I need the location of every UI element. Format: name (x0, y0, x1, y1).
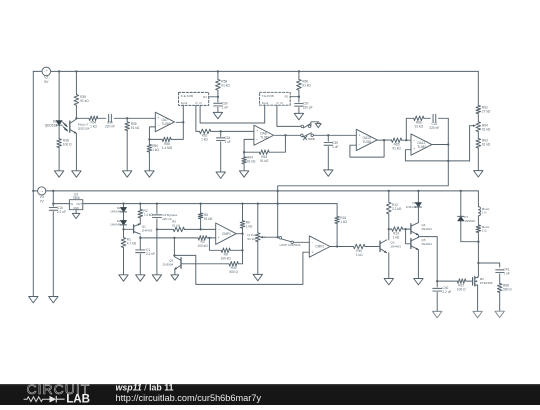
voltage source V2 (33, 67, 50, 84)
svg-text:SW8: SW8 (308, 137, 315, 141)
svg-text:RJ: RJ (203, 95, 207, 99)
svg-text:1 kΩ: 1 kΩ (90, 125, 97, 129)
ground C34 (216, 172, 225, 178)
svg-text:1N4148: 1N4148 (110, 223, 121, 227)
svg-text:100 kΩ: 100 kΩ (197, 244, 208, 248)
svg-text:2N4401: 2N4401 (390, 245, 401, 249)
ground U2 (72, 213, 80, 218)
node D2 R1 base (122, 228, 124, 230)
node V3 left border (32, 190, 34, 192)
transistor Q2 2N3904 (163, 257, 181, 270)
wire box1 O to R62 (196, 105, 200, 131)
node C34 tap (220, 130, 222, 132)
wire box1 RJ pin (209, 96, 218, 98)
svg-text:−: − (312, 241, 314, 245)
ground Q3 (384, 279, 393, 285)
ground divider chain (474, 171, 483, 177)
wire U2 output rail (83, 203, 337, 205)
wire OA7 output (176, 121, 183, 123)
svg-text:1 kΩ: 1 kΩ (152, 148, 159, 152)
resistor Motor R (476, 225, 489, 233)
svg-text:91 kΩ: 91 kΩ (80, 99, 89, 103)
resistor R2 (138, 204, 153, 218)
svg-text:91 kΩ: 91 kΩ (204, 217, 213, 221)
wire node to R5 (157, 228, 173, 230)
svg-text:2.2 nF: 2.2 nF (146, 252, 155, 256)
wire M2 source ground (477, 286, 479, 312)
wiper R64b (470, 125, 476, 161)
svg-text:1 Ω: 1 Ω (482, 229, 488, 233)
svg-text:91 kΩ: 91 kΩ (482, 127, 491, 131)
ground C10 (49, 297, 58, 303)
svg-text:1N4148: 1N4148 (110, 210, 121, 214)
node C3 R5 (156, 228, 158, 230)
svg-text:2.2 uF: 2.2 uF (57, 210, 66, 214)
svg-text:91 kΩ: 91 kΩ (392, 146, 401, 150)
wire R50 to ground (148, 152, 150, 171)
wire C39 to ground (327, 147, 329, 170)
ground C30 (213, 112, 222, 118)
svg-text:+: + (158, 116, 160, 120)
diode D9 (406, 191, 422, 210)
wire Q4 collector to D9 (417, 210, 419, 223)
wire C10 to ground (52, 212, 54, 297)
svg-text:1 kΩ: 1 kΩ (246, 224, 253, 228)
node Q4 base (404, 228, 406, 230)
capacitor C34 (217, 131, 231, 144)
svg-text:1 uF: 1 uF (225, 140, 231, 144)
wire Q3 emitter ground (388, 253, 390, 279)
svg-text:91 kΩ: 91 kΩ (415, 125, 424, 129)
wire Q5 base drop (406, 229, 411, 244)
resistor R12 (387, 191, 402, 229)
wire Q5 emitter ground (417, 250, 419, 279)
capacitor C41 (496, 268, 510, 276)
node wiper bus (277, 236, 279, 238)
wire Q2 emitter ground (174, 270, 176, 275)
resistor R16 (335, 204, 348, 247)
svg-text:LAB: LAB (66, 393, 90, 405)
op-amp OA8 (254, 125, 274, 145)
wire R39 to photo collector (75, 105, 77, 118)
wire R54 to C31 (98, 117, 106, 119)
resistor R5 (172, 219, 184, 231)
op-amp OA11 (411, 134, 432, 155)
wire box2 RJ pin (290, 96, 299, 98)
node R8 output bus (241, 249, 243, 251)
capacitor C31b (429, 114, 439, 130)
svg-text:1N4148: 1N4148 (406, 205, 417, 209)
wire U2 ground (75, 210, 77, 214)
phototransistor Q6 (64, 118, 90, 133)
switch SW7 (301, 124, 311, 128)
wire snubber (478, 263, 499, 267)
wire SW8 to OA10 (313, 134, 356, 136)
capacitor C39 (324, 135, 338, 149)
resistor R6 (198, 204, 213, 230)
node R60 C37 (298, 96, 300, 98)
footer bar (0, 384, 540, 405)
ground C39 (324, 170, 333, 176)
wire R65 to OA11 (402, 139, 411, 141)
svg-text:−: − (218, 228, 220, 232)
wire R62 to OA8 (211, 130, 254, 132)
resistor R66 (414, 116, 424, 129)
wire photo emitter to ground (75, 133, 77, 170)
svg-text:Input: Input (262, 101, 269, 105)
svg-text:2.2 kΩ: 2.2 kΩ (392, 207, 402, 211)
svg-text:O': O' (280, 101, 283, 105)
svg-text:1 H: 1 H (482, 211, 487, 215)
comparator CMP2 (309, 236, 330, 257)
wire R30 to bus (238, 263, 242, 265)
resistor R40 (353, 244, 365, 257)
svg-text:CMP1: CMP1 (222, 232, 231, 236)
capacitor C30 (214, 97, 228, 110)
ground C1 (136, 275, 145, 281)
node R55 tap (126, 117, 128, 119)
wire to U2 input (53, 203, 69, 205)
capacitor C40 (433, 281, 452, 294)
node output rail junctions (122, 202, 279, 204)
wire D8 to R38 (58, 125, 60, 139)
wire C31 to OA7 input (114, 117, 155, 119)
wire motor to drain (477, 233, 479, 277)
wire V3 rail (46, 190, 479, 192)
resistor R9 (240, 204, 253, 234)
svg-text:7.4 kΩ: 7.4 kΩ (143, 213, 153, 217)
svg-text:1 uF: 1 uF (504, 272, 510, 276)
wire pot to ground (257, 242, 259, 275)
resistor R68 (497, 284, 512, 293)
svg-text:27 kΩ: 27 kΩ (482, 109, 491, 113)
svg-text:220 nF: 220 nF (105, 125, 115, 129)
ground M2 (473, 311, 482, 317)
svg-text:−: − (413, 138, 415, 142)
resistor R63b (476, 139, 491, 149)
node Q2 collector row (173, 237, 175, 257)
diode D1 (110, 206, 127, 214)
node regulator input (52, 202, 54, 204)
wire C40 to ground (436, 292, 438, 311)
wire R68 to ground (499, 292, 501, 311)
LED D8 (45, 120, 67, 131)
resistor R60 (297, 71, 312, 96)
svg-text:1 kΩ: 1 kΩ (201, 138, 208, 142)
wiper Pot1 (261, 236, 278, 238)
wire R67 to gate (466, 280, 473, 282)
wire Q2 collector (173, 238, 175, 255)
node OA11 inverting (405, 139, 407, 141)
svg-text:2N3904: 2N3904 (163, 262, 174, 266)
svg-text:NTE2396: NTE2396 (480, 281, 493, 285)
wire V+ to D8 (58, 71, 60, 120)
wire R1 to ground (123, 248, 125, 275)
svg-text:QSD124: QSD124 (78, 127, 90, 131)
svg-text:+: + (359, 134, 361, 138)
svg-text:+: + (413, 147, 415, 151)
svg-text:TL081: TL081 (260, 135, 269, 139)
node bus bottom (447, 160, 449, 162)
flag terminal (315, 122, 321, 128)
wire pot to R63b (477, 132, 479, 139)
svg-text:7V: 7V (40, 199, 45, 203)
capacitor C1 (136, 248, 155, 256)
svg-text:RJ: RJ (285, 95, 289, 99)
ground phototransistor (72, 171, 81, 177)
wire R8 to output (230, 249, 242, 251)
wire C34 to ground (220, 142, 222, 172)
resistor R13 (389, 227, 403, 240)
ground R50 (145, 171, 154, 177)
svg-text:9V: 9V (44, 80, 49, 84)
ground R38 (54, 171, 63, 177)
svg-text:http://circuitlab.com/cur5h6b6: http://circuitlab.com/cur5h6b6mar7y (116, 393, 262, 403)
node CMP2 output (336, 245, 338, 247)
wire motor branch (477, 191, 479, 207)
wire box2 input drop (264, 105, 266, 123)
diode D7 flyback (458, 191, 479, 242)
svg-text:IN: IN (70, 202, 73, 206)
svg-text:1 uF: 1 uF (222, 106, 228, 110)
op-amp OA10 (356, 129, 377, 150)
svg-text:OUT: OUT (76, 202, 82, 206)
wire D2 to node (123, 225, 125, 238)
resistor R56 (149, 122, 183, 150)
wire flag (311, 122, 318, 126)
svg-text:100 Ω: 100 Ω (457, 287, 466, 291)
svg-text:91 kΩ: 91 kΩ (247, 159, 256, 163)
svg-text:4.7 kΩ: 4.7 kΩ (127, 242, 137, 246)
svg-text:91 kΩ: 91 kΩ (221, 84, 230, 88)
svg-text:−: − (256, 138, 258, 142)
node R5 R6 (199, 228, 201, 230)
svg-text:2.2 uF: 2.2 uF (442, 290, 451, 294)
resistor R39 (74, 95, 89, 106)
node photo collector (75, 117, 77, 119)
svg-text:1.4 MΩ: 1.4 MΩ (162, 146, 173, 150)
svg-text:CMP2: CMP2 (315, 245, 324, 249)
transistor Q5 2N4401 (411, 237, 432, 249)
wire R30 row (181, 263, 229, 265)
wire D1 to D2 (123, 212, 125, 221)
svg-text:91 kΩ: 91 kΩ (302, 84, 311, 88)
capacitor C31 (105, 114, 115, 128)
node top rail junctions (58, 70, 300, 72)
voltage source V3 (33, 187, 46, 204)
svg-text:100 Ω: 100 Ω (63, 143, 72, 147)
node Q1 collector row (139, 237, 141, 239)
wire output bus down (242, 234, 244, 264)
svg-text:K-E KOB: K-E KOB (181, 94, 193, 98)
inductor Motor L (478, 207, 489, 216)
resistor R1 (121, 238, 137, 248)
ground Q2 (171, 275, 179, 280)
resistor R63 (244, 135, 285, 163)
svg-text:1 kΩ: 1 kΩ (340, 220, 347, 224)
transistor Q3 2N4401 (373, 240, 401, 253)
wire switch to CMP2 (293, 241, 309, 243)
resistor R55 (125, 118, 140, 130)
wire base Q1 (124, 228, 134, 230)
diode D2 (110, 219, 127, 227)
wire C3 to node (156, 219, 158, 230)
svg-text:91 kΩ: 91 kΩ (247, 237, 256, 241)
wire C37 to ground (298, 108, 300, 114)
switch SW8 (301, 133, 315, 141)
resistor R8 (221, 248, 232, 261)
wire R63b to ground (477, 148, 479, 171)
switch LOOP CONTROL (279, 237, 301, 247)
wire R55 to ground (126, 131, 128, 171)
svg-text:T-E KOB: T-E KOB (262, 94, 274, 98)
wire R2 to Q1 emitter (139, 218, 141, 224)
capacitor C37 (295, 97, 313, 110)
ground R1 (119, 275, 128, 281)
wire OA11 fb up (406, 118, 413, 140)
svg-text:TL081: TL081 (162, 122, 171, 126)
regulator U2 7806 (69, 192, 82, 209)
svg-text:+: + (218, 236, 220, 240)
svg-text:GND: GND (73, 206, 79, 210)
ground R68 (495, 311, 504, 317)
wire R66 to C31b (424, 117, 430, 119)
svg-text:91 kΩ: 91 kΩ (260, 159, 269, 163)
svg-text:+: + (256, 129, 258, 133)
svg-text:220 uF: 220 uF (162, 217, 172, 221)
svg-text:7806: 7806 (73, 196, 80, 200)
svg-text:1 kΩ: 1 kΩ (356, 253, 363, 257)
wire box2 O to switch (277, 105, 301, 126)
wire CMP2 output (330, 246, 353, 248)
svg-text:+: + (312, 250, 314, 254)
ground Pot1 (253, 274, 262, 280)
wire top rail (51, 70, 479, 72)
resistor R30 (229, 262, 239, 275)
transistor Q4 2N4401 (411, 223, 432, 235)
wire loop to CMP2 (174, 252, 309, 284)
wire rail to D1 (123, 204, 125, 208)
svg-text:Input: Input (181, 101, 188, 105)
wire C10 branch (52, 191, 54, 206)
resistor R65 (392, 138, 402, 151)
svg-text:91 kΩ: 91 kΩ (482, 143, 491, 147)
capacitor C10 (49, 206, 66, 214)
svg-text:LOOP CONTROL: LOOP CONTROL (280, 243, 302, 247)
wire Q3 collector (388, 229, 390, 240)
node drain tap (477, 262, 479, 264)
wire CMP1 output (236, 233, 242, 235)
svg-text:−: − (158, 124, 160, 128)
resistor R38 (57, 139, 72, 148)
svg-text:- +: - + (40, 189, 44, 193)
svg-text:2N4401: 2N4401 (421, 242, 432, 246)
svg-text:TL081: TL081 (417, 145, 426, 149)
transistor Q1 2N4403 (134, 224, 153, 235)
wire emitter row (140, 237, 198, 239)
svg-text:220 pF: 220 pF (303, 106, 313, 110)
wire OA7 inverting input (149, 127, 155, 139)
resistor R67 (457, 279, 466, 292)
wire OA11 output (432, 144, 448, 146)
ground C40 (433, 311, 442, 317)
node C39 tap (327, 134, 329, 136)
resistor R3 (197, 236, 208, 249)
wire photo node to R54 (76, 117, 89, 119)
resistor R50 (147, 139, 159, 152)
ground C37 (294, 113, 303, 119)
wire OA11 non-inverting (405, 150, 469, 161)
svg-text:91 kΩ: 91 kΩ (131, 126, 140, 130)
CircuitLab logo (24, 381, 91, 405)
ground Q5 (414, 279, 423, 285)
node R12 R13 (388, 228, 390, 230)
node OA8 output (284, 134, 286, 136)
svg-text:2N4403: 2N4403 (142, 228, 153, 232)
ground R55 (123, 171, 132, 177)
svg-text:91 kΩ: 91 kΩ (172, 223, 181, 227)
node OA11 output (447, 143, 449, 145)
block X1 K-E KOB (179, 92, 209, 105)
wire R3 to CMP1 plus (207, 237, 216, 239)
comparator CMP1 (216, 223, 237, 244)
node OA10 fb join (383, 139, 385, 141)
svg-text:100 kΩ: 100 kΩ (221, 257, 232, 261)
wire Q4 emitter Q5 collector (417, 235, 419, 237)
wire box1 Oprime to box2 input (200, 105, 265, 123)
potentiometer R64b (476, 122, 491, 132)
wire R62b to pot (477, 114, 479, 122)
svg-text:−: − (359, 143, 361, 147)
node gate drive (436, 280, 438, 282)
svg-text:wsp11 / lab 11: wsp11 / lab 11 (116, 383, 174, 393)
resistor R62b 27k (476, 105, 491, 113)
svg-text:1 uF: 1 uF (332, 145, 338, 149)
node motor D7 (477, 241, 479, 243)
node CMP1 plus (208, 237, 210, 239)
node OA7 output (182, 121, 184, 123)
wire R13 to Q4 (403, 228, 411, 230)
svg-text:220 nF: 220 nF (429, 126, 439, 130)
wire L to R (477, 216, 479, 225)
resistor R54 (89, 116, 98, 129)
wire C41 to R68 (499, 274, 501, 284)
wire C1 to ground (139, 254, 141, 275)
svg-text:1N5819: 1N5819 (464, 219, 475, 223)
svg-text:O': O' (199, 101, 202, 105)
svg-text:TL081: TL081 (363, 140, 372, 144)
wire R8 drop (209, 238, 221, 250)
node V3 rail junctions (52, 190, 462, 192)
wire left border (32, 71, 34, 296)
wire V+ to R39 (75, 71, 77, 94)
svg-text:QED523: QED523 (45, 124, 57, 128)
resistor R62 (200, 129, 211, 142)
wire OA10 feedback (350, 140, 384, 157)
svg-text:2N4401: 2N4401 (421, 227, 432, 231)
wire C31b to output bus (439, 117, 449, 119)
block X2 T-E KOB (260, 92, 291, 105)
wire OA8 output (275, 134, 302, 136)
wire OA7 output to box1 input (182, 105, 184, 122)
wire C30 to ground (217, 107, 219, 112)
op-amp OA7 (155, 112, 174, 132)
capacitor C3 (152, 204, 177, 222)
wire R5 to CMP1 (184, 228, 215, 230)
node OA7 feedback (148, 138, 150, 140)
potentiometer Pot1 (247, 204, 260, 242)
resistor R58 (216, 71, 231, 96)
